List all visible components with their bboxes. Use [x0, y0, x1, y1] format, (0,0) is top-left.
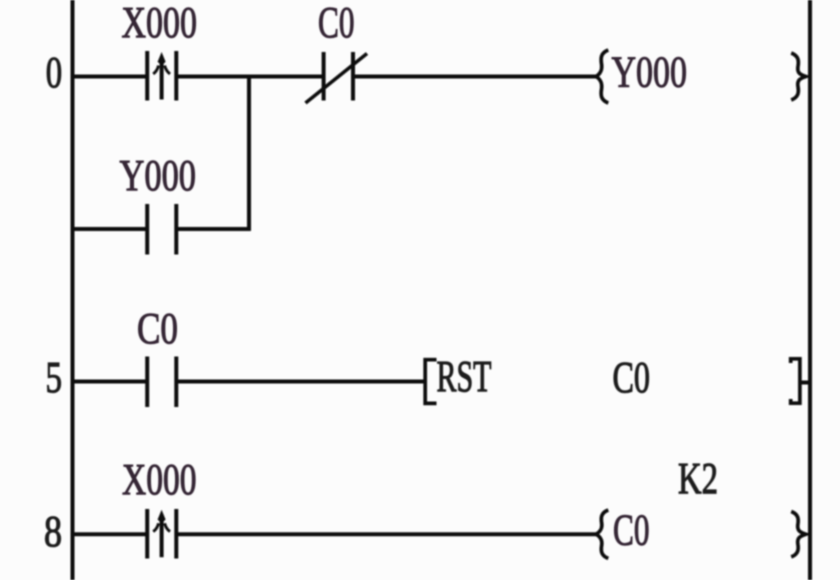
RST instruction left bracket — [425, 360, 436, 404]
left power rail — [71, 0, 75, 580]
contact C0 normally closed rung0 — [306, 52, 368, 103]
counter coil C0 closing brace — [791, 512, 806, 557]
svg-text:K2: K2 — [678, 454, 718, 503]
svg-text:Y000: Y000 — [612, 48, 688, 97]
svg-text:8: 8 — [44, 507, 62, 556]
svg-text:C0: C0 — [318, 0, 355, 47]
RST instruction right bracket — [791, 359, 800, 403]
svg-text:RST: RST — [437, 352, 492, 401]
svg-text:X000: X000 — [122, 455, 197, 504]
wire rung0 X000 to C0 — [178, 75, 322, 79]
wire rung8 X000 contact to coil C0 — [178, 532, 597, 536]
wire rung5 RST bracket to right rail — [801, 381, 809, 385]
counter coil C0 opening brace — [596, 510, 608, 558]
contact X000 rising edge rung0 — [147, 51, 176, 101]
svg-text:5: 5 — [46, 353, 63, 402]
right power rail — [808, 0, 812, 580]
wire rung8 rail to X000 contact — [74, 532, 146, 536]
svg-text:C0: C0 — [613, 353, 651, 402]
svg-text:Y000: Y000 — [120, 151, 197, 200]
svg-text:X000: X000 — [122, 0, 198, 47]
wire rung5 rail to C0 contact — [74, 380, 146, 384]
wire rung5 C0 contact to RST — [178, 380, 424, 384]
arrow head of X000 rung0 — [158, 52, 166, 66]
svg-text:0: 0 — [46, 48, 62, 97]
wire junction vertical branch — [247, 77, 251, 231]
wire branch Y000 contact to junction — [178, 227, 251, 231]
wire rung0 rail to X000 — [74, 75, 146, 79]
wire branch rail to Y000 contact — [74, 227, 146, 231]
coil Y000 opening brace — [596, 50, 608, 103]
arrow head of X000 rung8 — [158, 510, 166, 524]
contact Y000 branch — [147, 204, 176, 255]
coil Y000 closing brace — [791, 53, 806, 100]
wire rung0 C0 to coil Y000 — [355, 75, 597, 79]
contact X000 rising edge rung8 — [147, 509, 176, 559]
contact C0 rung5 — [147, 357, 176, 408]
svg-text:C0: C0 — [613, 506, 650, 555]
svg-text:C0: C0 — [137, 304, 178, 353]
